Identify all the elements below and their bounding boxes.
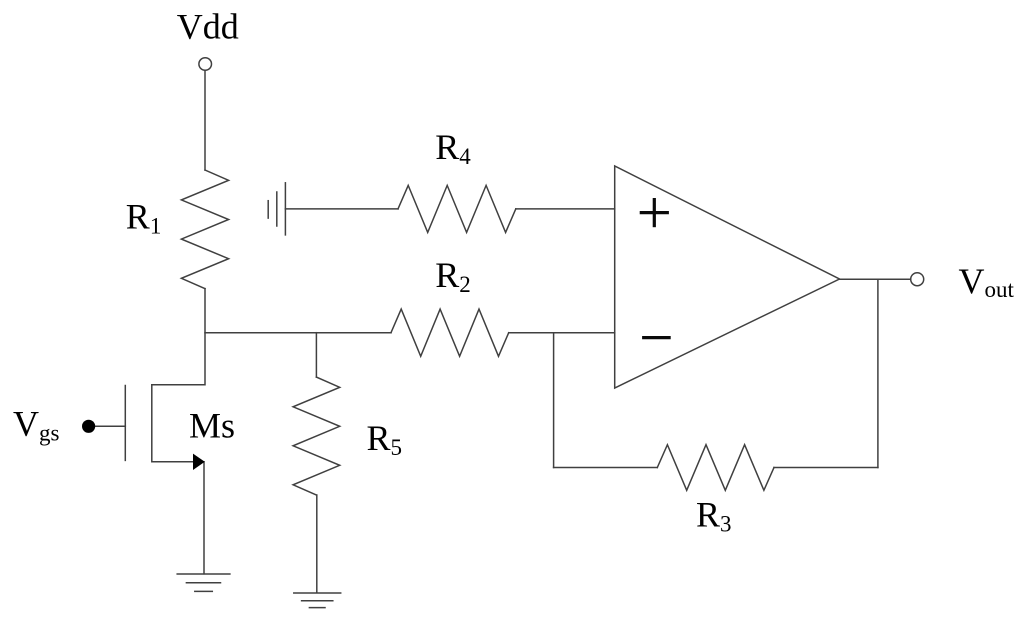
resistor R1	[181, 170, 228, 289]
wire feedback tap down from inverting node	[553, 333, 555, 468]
terminal dot at Vgs	[82, 420, 95, 433]
svg-text:Vdd: Vdd	[177, 7, 239, 47]
resistor R2	[391, 309, 509, 356]
svg-text:Vout: Vout	[959, 261, 1015, 302]
wire R1 bottom to drain bend	[152, 289, 205, 385]
wire source down to ground	[203, 462, 205, 574]
wire feedback up to output	[877, 279, 879, 467]
svg-text:R1: R1	[126, 197, 162, 239]
transistor Ms channel	[152, 385, 194, 462]
wire Vdd to R1	[204, 70, 206, 170]
wire R5 to ground	[316, 495, 318, 593]
wire op-amp output	[840, 278, 911, 280]
Vout terminal circle	[911, 273, 924, 286]
op-amp plus input marker	[640, 198, 669, 227]
ground (sideways, at R4)	[284, 183, 286, 235]
wire R2 to op-amp inverting input	[509, 332, 615, 334]
transistor Ms gate bar	[124, 386, 126, 461]
resistor R5	[293, 377, 340, 495]
op-amp minus input marker	[642, 336, 671, 339]
wire node A to R5	[315, 333, 317, 377]
transistor Ms source arrow	[193, 454, 205, 470]
resistor R3	[657, 445, 774, 491]
wire gate	[92, 425, 125, 427]
wire ground to R4	[285, 208, 398, 210]
svg-text:R5: R5	[367, 418, 403, 460]
node A horizontal wire (drain node to R2)	[205, 332, 391, 334]
ground (at Ms source)	[177, 573, 230, 575]
wire R4 to op-amp non-inverting input	[516, 208, 615, 210]
resistor R4	[398, 185, 516, 232]
svg-text:R3: R3	[696, 495, 732, 537]
svg-text:R2: R2	[435, 255, 471, 297]
svg-text:Vgs: Vgs	[13, 404, 60, 446]
wire feedback bottom right	[774, 467, 878, 469]
svg-text:R4: R4	[435, 127, 471, 169]
op-amp U1 triangle	[615, 166, 840, 388]
ground (at R5)	[294, 592, 341, 594]
Vdd terminal circle	[199, 58, 212, 71]
svg-text:Ms: Ms	[189, 406, 235, 446]
wire feedback bottom left	[554, 467, 658, 469]
